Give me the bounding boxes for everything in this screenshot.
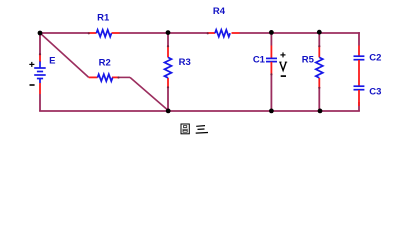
node R5 bottom junction [318,109,323,114]
wire top horizontal left segment [40,32,89,34]
wire C1 vertical bottom [270,75,272,112]
wire right vertical top [358,32,360,45]
V plus sign [280,52,285,57]
node B bottom R3 junction [166,109,171,114]
capacitor C1 [266,46,277,76]
node R3 top junction [166,30,171,35]
wire diagonal from R2 to node B [130,77,168,110]
resistor R1 [88,30,120,37]
wire R3 vertical bottom [167,88,169,112]
node C1 top junction [269,30,274,35]
wire bottom horizontal [39,110,360,112]
node R5 top junction [317,30,322,35]
capacitor C3 [354,86,365,106]
svg-text:C3: C3 [369,86,381,97]
wire R5 vertical top [318,33,320,46]
V minus sign [281,75,286,77]
wire R3 vertical top [167,33,169,46]
svg-text:C1: C1 [253,55,266,66]
V label [279,62,287,70]
battery plus sign [29,62,34,67]
svg-text:R2: R2 [99,58,111,69]
resistor R4 [207,30,240,37]
wire top horizontal right segment [240,32,360,34]
svg-text:R1: R1 [97,12,110,23]
svg-text:R3: R3 [179,57,191,68]
node A top-left junction [38,31,43,36]
battery E [34,53,46,94]
wire left vertical below battery [39,94,41,111]
node C1 bottom junction [269,109,274,114]
wire left vertical above battery [39,33,41,54]
wire diagonal from node A to R2 left [40,33,89,77]
svg-text:C2: C2 [369,53,381,64]
svg-text:R4: R4 [213,6,226,17]
capacitor C2 [354,46,365,87]
resistor R2 [89,74,120,81]
wire top horizontal middle segment [120,32,209,34]
svg-text:E: E [49,56,55,67]
battery minus sign [30,84,35,86]
svg-text:R5: R5 [302,55,315,66]
caption figure three char san [196,126,208,134]
wire R5 vertical bottom [318,88,320,111]
wire horizontal right of R2 [118,76,130,78]
wire right vertical bottom below C3 [358,102,360,111]
resistor R5 [316,45,323,89]
resistor R3 [165,45,172,88]
wire C1 vertical top [270,33,272,46]
caption figure three char tu [181,124,189,134]
